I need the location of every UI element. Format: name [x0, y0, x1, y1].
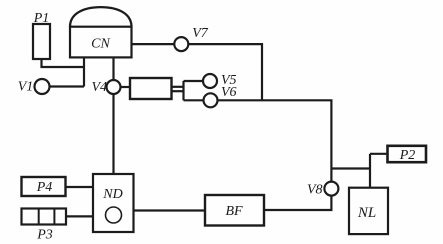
wire filter to manifold upper stub [172, 86, 184, 88]
wire bus to NL branch [331, 167, 370, 169]
trap NL [349, 188, 388, 234]
pump BF [205, 195, 264, 226]
svg-text:V7: V7 [192, 26, 209, 41]
valve V5 [203, 74, 217, 88]
wire V7 to right bus [188, 44, 262, 100]
svg-text:V6: V6 [221, 85, 237, 100]
wire P4 to ND [66, 186, 94, 188]
svg-text:CN: CN [91, 36, 110, 51]
valve V8 [324, 182, 338, 196]
svg-text:P2: P2 [399, 148, 416, 163]
svg-text:NL: NL [357, 205, 376, 221]
wire filter to manifold lower stub [172, 90, 184, 92]
svg-text:ND: ND [102, 187, 122, 202]
wire NL branch vertical [369, 154, 371, 188]
valve V1 [35, 79, 50, 94]
gauge P1 [33, 24, 50, 59]
svg-text:V1: V1 [18, 80, 34, 95]
wire V1 to junction [50, 85, 85, 87]
svg-text:V4: V4 [91, 80, 107, 95]
svg-text:P3: P3 [36, 228, 53, 243]
wire V8 to BF [264, 196, 331, 210]
svg-text:V8: V8 [307, 183, 323, 198]
pump ND [93, 174, 134, 232]
wire CN to V4 [112, 58, 114, 81]
wire P3 to ND [66, 215, 93, 217]
block P3 [22, 209, 67, 225]
wire P1 to junction [42, 59, 84, 67]
valve V7 [174, 37, 188, 51]
svg-text:BF: BF [225, 204, 243, 219]
wire manifold to V5 [184, 80, 204, 82]
valve V6 [204, 93, 218, 107]
wire V4 to ND [112, 94, 114, 174]
wire CN to V7 [132, 43, 175, 45]
chamber CN [70, 7, 132, 57]
manifold branch vertical [182, 81, 184, 100]
svg-text:P1: P1 [33, 11, 50, 26]
svg-text:P4: P4 [36, 180, 53, 195]
gauge P2 [388, 146, 427, 162]
wire branch to P2 [370, 153, 387, 155]
gauge P4 [22, 177, 66, 196]
wire manifold to V6 [184, 99, 204, 101]
valve V4 [107, 80, 121, 94]
wire V4 to filter [121, 86, 131, 88]
filter box [130, 78, 172, 99]
wire V6 to V8 bus [218, 100, 332, 181]
wire CN to V1 junction [83, 58, 85, 87]
wire ND to BF [134, 209, 206, 211]
